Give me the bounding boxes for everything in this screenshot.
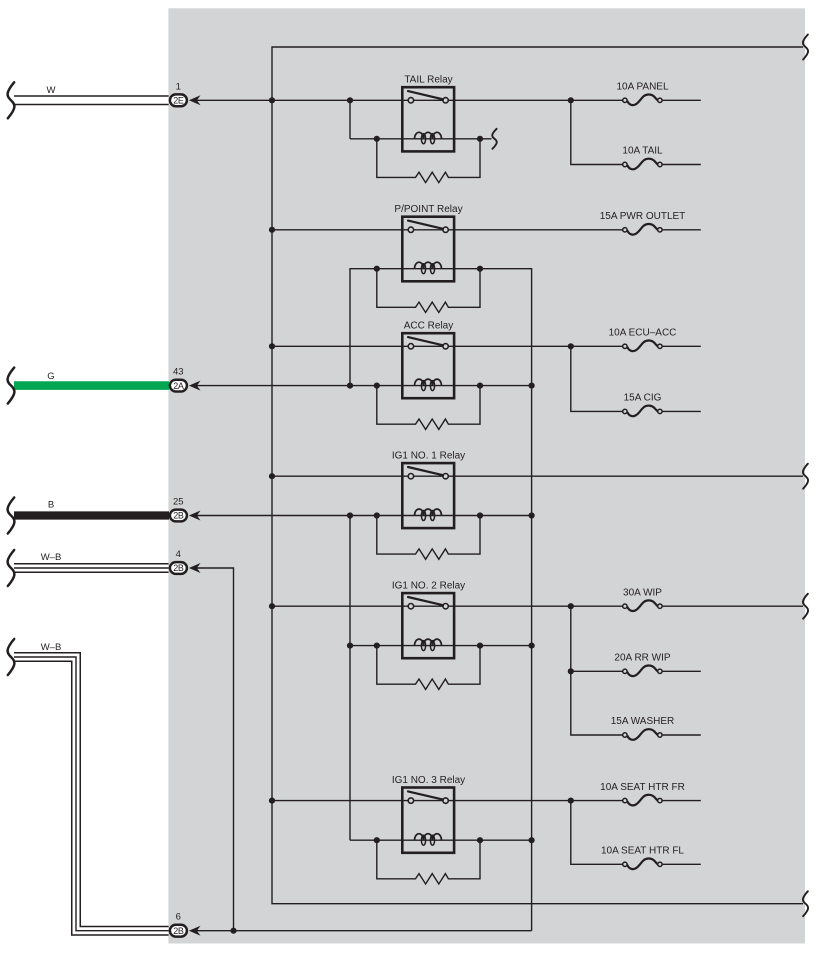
junction node at (480,268.7) <box>477 266 483 272</box>
wire color label W-B (lower) <box>41 642 62 653</box>
resistor (parallel with TAIL relay coil) <box>377 139 480 183</box>
wire: connector 2B pin 4 lead down to pin 6 line <box>196 568 234 931</box>
junction node at (272,229.8) <box>269 227 275 233</box>
break symbol IG1 NO.1 contact line continues <box>803 464 808 489</box>
wire W-B (white-black) routed to connector 2B pin 6 <box>14 657 169 931</box>
resistor (parallel with P/POINT relay coil) <box>377 269 480 313</box>
svg-text:IG1 NO. 3 Relay: IG1 NO. 3 Relay <box>392 775 465 786</box>
svg-text:43: 43 <box>173 367 184 378</box>
wire: IG1 NO.3 coil line <box>350 839 532 841</box>
junction node at (480,385.6) <box>477 383 483 389</box>
relay P/POINT Relay <box>394 204 462 281</box>
junction node at (480,840.2) <box>477 837 483 843</box>
svg-text:P/POINT Relay: P/POINT Relay <box>394 204 462 215</box>
junction node at (480,515.5) <box>477 512 483 518</box>
junction node at (376.8,138.8) <box>374 136 380 142</box>
relay TAIL Relay <box>402 75 454 152</box>
fuse 10A SEAT HTR FL <box>601 846 684 870</box>
wire: ACC relay contact line (10A ECU-ACC feed) <box>272 345 701 347</box>
break symbol (wire G continues) <box>8 368 15 404</box>
wire: branch to 10A TAIL fuse <box>571 100 701 164</box>
wire: ACC coil line from connector 2A <box>196 385 532 387</box>
relay ACC Relay <box>402 321 454 399</box>
wire: P/POINT relay contact line (15A PWR OUTLET feed) <box>272 229 701 231</box>
break symbol (wire W continues) <box>8 82 15 118</box>
connector 2B pin 4 <box>170 549 201 574</box>
svg-text:6: 6 <box>176 912 181 923</box>
wire: coil bus vertical (IG1 coils chain) <box>349 516 351 841</box>
svg-text:15A PWR OUTLET: 15A PWR OUTLET <box>600 211 686 222</box>
resistor (parallel with ACC relay coil) <box>377 386 480 430</box>
junction node at (376.8,645.6) <box>374 643 380 649</box>
wire: IG1 NO.2 relay contact line (30A WIP feed) <box>272 605 803 607</box>
svg-text:20A RR WIP: 20A RR WIP <box>614 653 670 664</box>
relay IG1 NO. 3 Relay <box>392 775 465 853</box>
wire: branch to 10A SEAT HTR FL fuse <box>571 801 701 865</box>
break symbol (wire W-B pin4 continues) <box>8 550 15 586</box>
svg-text:TAIL Relay: TAIL Relay <box>404 75 452 86</box>
wire: IG1 NO.3 relay contact line (10A SEAT HTR FR feed) <box>272 800 701 802</box>
fuse 15A WASHER <box>611 716 675 740</box>
fuse 15A PWR OUTLET <box>600 211 686 235</box>
svg-text:15A WASHER: 15A WASHER <box>611 716 675 727</box>
wire: IG1 NO.1 coil line from connector 2B pin 25 <box>196 515 532 517</box>
junction node at (570.8,346.3) <box>568 343 574 349</box>
junction node at (531.6,515.5) <box>529 512 535 518</box>
junction node at (531.6,385.6) <box>529 383 535 389</box>
svg-text:10A PANEL: 10A PANEL <box>616 82 669 93</box>
svg-text:15A CIG: 15A CIG <box>624 393 662 404</box>
wire color label G <box>47 371 54 382</box>
junction node at (350,100.3) <box>347 97 353 103</box>
junction node at (376.8,268.7) <box>374 266 380 272</box>
junction node at (570.8,606.2) <box>568 603 574 609</box>
svg-text:25: 25 <box>173 497 184 508</box>
connector 2B pin 25 <box>170 497 201 522</box>
svg-text:10A TAIL: 10A TAIL <box>622 146 663 157</box>
connector 2B pin 6 <box>170 912 201 937</box>
connector 2E pin 1 <box>170 81 201 106</box>
wire: P/POINT coil line and long right-side vertical to pin 6 line <box>350 269 532 931</box>
wire W (white) to connector 2E pin 1 <box>14 95 169 105</box>
svg-text:2E: 2E <box>173 96 184 106</box>
wire: branch to 15A WASHER fuse <box>571 671 701 735</box>
junction node at (376.8,385.6) <box>374 383 380 389</box>
junction node at (570.8,800.6) <box>568 798 574 804</box>
resistor (parallel with IG1 NO.2 relay coil) <box>377 646 480 690</box>
junction node at (350,385.6) <box>347 383 353 389</box>
fuse 20A RR WIP <box>614 653 670 677</box>
svg-text:2B: 2B <box>173 563 184 573</box>
wire W-B (white-black) to connector 2B pin 4 <box>14 563 169 573</box>
svg-text:2A: 2A <box>173 381 184 391</box>
wire: IG1 NO.1 relay contact line <box>272 475 803 477</box>
svg-text:1: 1 <box>176 81 181 92</box>
svg-text:IG1 NO. 1 Relay: IG1 NO. 1 Relay <box>392 451 465 462</box>
junction node at (376.8,840.2) <box>374 837 380 843</box>
junction node at (272,606.2) <box>269 603 275 609</box>
svg-text:4: 4 <box>176 549 181 560</box>
junction node at (570.8,671.3) <box>568 668 574 674</box>
junction node at (531.6,840.2) <box>529 837 535 843</box>
break symbol IG1 NO.2 contact line continues <box>803 594 808 619</box>
fuse 10A ECU&#8211;ACC <box>609 328 677 352</box>
svg-text:2B: 2B <box>173 511 184 521</box>
junction node at (480,138.8) <box>477 136 483 142</box>
junction node at (350,515.5) <box>347 512 353 518</box>
break symbol top rail continues <box>803 35 808 60</box>
wire: TAIL relay coil line with break <box>350 100 492 139</box>
svg-text:B: B <box>48 500 54 511</box>
svg-text:10A ECU–ACC: 10A ECU–ACC <box>609 328 677 339</box>
wire: main feed bus (top rail, left vertical bus, bottom rail) <box>272 47 803 904</box>
svg-text:W–B: W–B <box>41 552 62 563</box>
relay IG1 NO. 1 Relay <box>392 451 465 528</box>
svg-text:W–B: W–B <box>41 642 62 653</box>
svg-text:G: G <box>47 371 54 382</box>
break symbol TAIL coil wire continues <box>492 129 497 149</box>
fuse 30A WIP <box>623 587 663 611</box>
break symbol (wire B continues) <box>8 498 15 534</box>
junction node at (480,645.6) <box>477 643 483 649</box>
junction node at (531.6,645.6) <box>529 643 535 649</box>
junction node at (272,800.6) <box>269 798 275 804</box>
wire: TAIL relay contact line (2E pin1 to 10A PANEL) <box>196 99 701 101</box>
svg-text:IG1 NO. 2 Relay: IG1 NO. 2 Relay <box>392 581 465 592</box>
junction node at (272,476.2) <box>269 473 275 479</box>
fuse 15A CIG <box>623 393 662 417</box>
svg-text:W: W <box>47 85 56 96</box>
svg-text:2B: 2B <box>173 926 184 936</box>
wire: branch to 15A CIG fuse <box>571 346 701 411</box>
wire color label W <box>47 85 56 96</box>
wire color label B <box>48 500 54 511</box>
wire G (green) to connector 2A pin 43 <box>14 381 169 390</box>
svg-text:ACC Relay: ACC Relay <box>404 321 453 332</box>
connector 2A pin 43 <box>170 367 201 392</box>
resistor (parallel with IG1 NO.1 relay coil) <box>377 516 480 560</box>
junction node at (233.5,930.7) <box>230 928 236 934</box>
relay IG1 NO. 2 Relay <box>392 581 465 659</box>
fuse 10A TAIL <box>622 146 663 170</box>
break symbol bottom rail continues <box>803 891 808 916</box>
wire B (black) to connector 2B pin 25 <box>14 511 169 519</box>
junction node at (570.8,100.3) <box>568 97 574 103</box>
wire color label W-B <box>41 552 62 563</box>
svg-text:30A WIP: 30A WIP <box>623 587 662 598</box>
fuse 10A PANEL <box>616 82 669 106</box>
wire: connector 2B pin 6 line <box>196 930 532 932</box>
junction node at (272,100.3) <box>269 97 275 103</box>
break symbol (wire W-B pin6 continues) <box>8 639 15 675</box>
junction node at (376.8,515.5) <box>374 512 380 518</box>
junction node at (272,346.3) <box>269 343 275 349</box>
svg-text:10A SEAT HTR FR: 10A SEAT HTR FR <box>600 782 685 793</box>
svg-text:10A SEAT HTR FL: 10A SEAT HTR FL <box>601 846 684 857</box>
junction block background (instrument panel J/B) <box>168 8 805 943</box>
wire: branch to 20A RR WIP fuse <box>571 606 701 671</box>
junction node at (350,645.6) <box>347 643 353 649</box>
resistor (parallel with IG1 NO.3 relay coil) <box>377 840 480 884</box>
wire: IG1 NO.2 coil line <box>350 645 532 647</box>
fuse 10A SEAT HTR FR <box>600 782 685 806</box>
